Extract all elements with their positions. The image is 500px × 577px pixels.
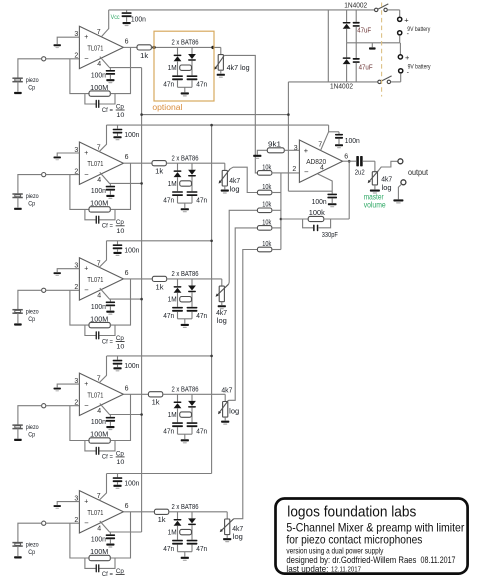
svg-text:logos foundation labs: logos foundation labs (287, 503, 416, 520)
resistor R3b 1M (180, 297, 192, 302)
capacitor 100n (Vcc decoupling, channel 4) (117, 356, 119, 360)
op-amp U6 AD820 (299, 140, 342, 182)
svg-text:Cp: Cp (116, 450, 124, 457)
svg-text:100n: 100n (91, 72, 106, 79)
ground (master pot) (370, 190, 380, 192)
svg-text:100M: 100M (90, 201, 108, 208)
capacitor C7 47uF (355, 43, 357, 58)
wire (pot to ground) (226, 535, 228, 538)
ground (pin 4 cap) (106, 544, 114, 546)
capacitor C1a 47n (172, 75, 183, 77)
ground (piezo) (14, 208, 22, 210)
wiper (219, 169, 230, 183)
wire (Vcc rows ch3-ch5) (107, 240, 212, 242)
wire (pin 3 to ground) (57, 37, 79, 44)
svg-text:Cf =: Cf = (102, 223, 113, 230)
wire (17, 429, 19, 439)
ground (limiter) (181, 557, 189, 559)
ground (limiter) (181, 92, 189, 94)
switch SW1 (+9V) (375, 8, 378, 11)
wire (limiter bottom) (177, 80, 179, 87)
wire (to limiter) (166, 162, 224, 164)
capacitor C3b 47n (187, 307, 198, 309)
svg-text:10k: 10k (262, 202, 271, 209)
wiper (216, 284, 228, 296)
wiper (215, 55, 224, 68)
battery B1 +9V terminal (399, 10, 401, 17)
capacitor 100n (pin 4 decoupling, channel 4) (109, 415, 111, 417)
wire (46, 289, 80, 291)
capacitor 100n (pin 4 decoupling, channel 5) (109, 532, 111, 534)
svg-text:piezo: piezo (26, 193, 39, 200)
svg-text:log: log (233, 534, 243, 541)
svg-text:Cp: Cp (116, 103, 124, 110)
wire (Vcc bus vertical) (211, 125, 213, 473)
svg-text:4: 4 (97, 177, 101, 184)
feedback resistor 100M (channel 5) (70, 523, 89, 558)
capacitor C2b 47n (187, 191, 198, 193)
potentiometer P2 4k7 log (224, 163, 226, 170)
ground (pin 4 cap) (106, 79, 114, 81)
svg-text:10k: 10k (262, 241, 271, 248)
wire (to pin 2) (281, 172, 300, 174)
ground (piezo) (14, 92, 22, 94)
wire (pot to ground) (221, 302, 223, 305)
feedback resistor 100M (channel 2) (70, 175, 89, 210)
svg-text:1M: 1M (168, 181, 177, 188)
svg-text:100n: 100n (312, 199, 327, 206)
svg-text:100n: 100n (91, 304, 106, 311)
resistor R4a 1k (123, 393, 148, 395)
capacitor C3a 47n (172, 307, 183, 309)
capacitor C2a 47n (172, 191, 183, 193)
resistor R2b 1M (180, 181, 192, 186)
svg-text:6: 6 (125, 385, 129, 392)
svg-text:output: output (408, 168, 429, 177)
wire (pin 4) (100, 172, 142, 183)
svg-text:47n: 47n (196, 429, 207, 436)
svg-text:2: 2 (74, 400, 78, 407)
diode D2a BAT86 (177, 163, 179, 170)
ground (pin 4 cap) (106, 311, 114, 313)
svg-text:12.11.2017: 12.11.2017 (331, 565, 361, 574)
svg-text:10: 10 (116, 112, 124, 119)
wire (limiter bottom) (177, 427, 179, 434)
wire (272, 249, 281, 251)
wire (to limiter) (169, 511, 227, 513)
svg-text:4k7 log: 4k7 log (227, 65, 250, 72)
ground (output jack) (393, 199, 403, 201)
wire (46, 405, 80, 407)
piezo element Cp (channel 2) (12, 193, 22, 195)
svg-text:1k: 1k (158, 517, 167, 524)
wire (-9V bottom rail) (288, 81, 378, 83)
wire (18, 59, 42, 78)
resistor R2a 1k (123, 162, 152, 164)
svg-text:9V battery: 9V battery (407, 26, 431, 33)
svg-text:4: 4 (320, 165, 324, 172)
svg-text:2u2: 2u2 (355, 170, 365, 177)
capacitor 100n (pin 4 decoupling, channel 3) (109, 299, 111, 301)
svg-text:7: 7 (97, 29, 101, 36)
svg-text:2 x BAT86: 2 x BAT86 (172, 271, 199, 278)
svg-text:47n: 47n (196, 82, 207, 89)
diode D2b BAT86 (191, 163, 193, 170)
op-amp U4 TL071 (79, 373, 123, 415)
svg-text:1M: 1M (168, 297, 177, 304)
ground (pot P4) (221, 421, 229, 423)
ground (9k1) (253, 155, 261, 157)
svg-text:6: 6 (344, 153, 348, 160)
wire (17, 546, 19, 556)
capacitor 100n (AD820 V+) (338, 132, 340, 134)
svg-text:Cp: Cp (28, 85, 35, 92)
resistor R11 9k1 (257, 150, 267, 154)
ground (pot P5) (223, 538, 231, 540)
capacitor 100n (Vcc decoupling, channel 2) (117, 125, 119, 129)
capacitor 100n (pin 4 decoupling, channel 2) (109, 183, 111, 185)
diode D4b BAT86 (191, 394, 193, 401)
svg-text:TL071: TL071 (87, 508, 103, 517)
svg-text:Cp: Cp (28, 432, 35, 439)
svg-text:volume: volume (364, 201, 386, 210)
ground (pot P3) (218, 305, 226, 307)
optional box (channel 1 limiter) (154, 31, 214, 101)
svg-text:4k7: 4k7 (381, 176, 392, 183)
switch SW2 (-9V) (378, 80, 381, 83)
feedback resistor 100M (channel 3) (70, 290, 89, 325)
svg-text:10: 10 (116, 228, 124, 235)
node (limiter in) (152, 46, 155, 49)
svg-text:Cp: Cp (116, 568, 124, 575)
svg-text:+: + (84, 150, 88, 157)
svg-text:piezo: piezo (26, 424, 39, 431)
feedback resistor 100M (channel 4) (70, 406, 89, 441)
svg-text:10k: 10k (262, 184, 271, 191)
svg-text:1N4002: 1N4002 (330, 83, 353, 90)
svg-text:TL071: TL071 (87, 390, 103, 399)
wire (limiter bottom) (177, 545, 179, 552)
resistor R1a 1k (123, 46, 137, 48)
svg-text:2: 2 (74, 517, 78, 524)
wire (pin 3 to ground) (57, 502, 79, 505)
battery B1 - terminal (398, 31, 402, 35)
output jack tip (398, 159, 403, 164)
ground (piezo) (14, 439, 22, 441)
wire (18, 406, 42, 425)
ground (piezo) (14, 556, 22, 558)
capacitor 100n (Vcc decoupling, channel 3) (117, 241, 119, 245)
wire (pin 7) (102, 10, 109, 37)
ground (pot P2) (221, 190, 229, 192)
svg-text:2 x BAT86: 2 x BAT86 (172, 386, 199, 393)
svg-text:1M: 1M (168, 529, 177, 536)
wire (pin 4) (100, 288, 142, 299)
piezo input connector J1 (42, 57, 46, 61)
wire (Vee bus horizontal) (142, 114, 289, 116)
wire (Vee feed) (288, 190, 332, 192)
wire (limiter bottom) (177, 312, 179, 319)
wire (272, 192, 281, 194)
svg-text:Cf =: Cf = (102, 107, 113, 114)
svg-text:47n: 47n (196, 197, 207, 204)
wire (to limiter) (151, 46, 220, 48)
svg-text:+: + (84, 266, 88, 273)
capacitor C1b 47n (187, 75, 198, 77)
capacitor C8 330pF (303, 219, 313, 228)
svg-text:9V battery: 9V battery (408, 63, 432, 70)
capacitor 100n (pin 4 decoupling, channel 1) (109, 68, 111, 70)
svg-text:version using a dual power sup: version using a dual power supply (286, 545, 384, 555)
wire (pin 7) (99, 241, 107, 268)
feedback capacitor Cf (channel 4) (85, 441, 96, 451)
svg-text:+: + (404, 15, 409, 24)
svg-text:TL071: TL071 (87, 159, 103, 168)
capacitor 100n (AD820 V-) (327, 194, 337, 196)
wire (pin 4) (100, 57, 142, 68)
wire (to limiter) (163, 393, 225, 395)
svg-text:100n: 100n (345, 138, 360, 145)
svg-text:log: log (229, 409, 239, 416)
svg-text:−: − (84, 54, 89, 63)
svg-text:47n: 47n (163, 546, 174, 553)
diode D1a BAT86 (177, 47, 179, 54)
svg-text:47n: 47n (163, 82, 174, 89)
svg-text:47uF: 47uF (359, 64, 373, 71)
svg-text:10k: 10k (262, 219, 271, 226)
svg-text:for piezo contact microphones: for piezo contact microphones (286, 532, 422, 546)
svg-text:9k1: 9k1 (268, 141, 281, 148)
wire (pin 4) (100, 521, 142, 532)
svg-text:−: − (84, 286, 89, 295)
feedback capacitor Cf (channel 3) (85, 325, 96, 335)
svg-text:log: log (217, 318, 227, 325)
svg-text:10: 10 (116, 344, 124, 351)
svg-text:2 x BAT86: 2 x BAT86 (172, 40, 199, 47)
svg-text:Vcc: Vcc (111, 14, 120, 21)
wire (Vee bus vertical left) (141, 68, 143, 532)
feedback capacitor Cf (channel 2) (85, 209, 96, 219)
svg-text:Cp: Cp (28, 200, 35, 207)
resistor R17 100k (feedback) (281, 218, 308, 220)
wire (pot to ground) (374, 185, 376, 189)
wire (46, 58, 80, 60)
ground (piezo) (14, 323, 22, 325)
wire (output) (343, 160, 356, 162)
wire (feedback to output) (348, 161, 350, 219)
svg-text:47n: 47n (196, 546, 207, 553)
wire (summing bus) (280, 173, 282, 250)
wire (18, 175, 42, 194)
svg-text:100M: 100M (90, 432, 108, 439)
svg-text:100M: 100M (90, 316, 108, 323)
svg-text:log: log (230, 186, 240, 193)
wire (pin 3 to ground) (57, 384, 79, 387)
svg-text:100n: 100n (91, 537, 106, 544)
piezo input connector J2 (42, 173, 46, 177)
resistor R14 10k (257, 208, 272, 213)
node (feedback tap) (348, 160, 351, 163)
wire (18, 523, 42, 542)
svg-text:Cp: Cp (28, 549, 35, 556)
svg-text:piezo: piezo (26, 309, 39, 316)
wire (pin 7) (99, 474, 107, 501)
svg-text:Cf =: Cf = (102, 571, 113, 577)
svg-text:100M: 100M (90, 85, 108, 92)
wire (272, 227, 281, 229)
ground (limiter) (181, 324, 189, 326)
svg-text:4: 4 (97, 293, 101, 300)
wire (272, 172, 281, 174)
wiper (219, 400, 229, 413)
svg-text:100n: 100n (124, 132, 139, 139)
svg-text:08.11.2017: 08.11.2017 (421, 555, 456, 565)
svg-text:log: log (382, 185, 392, 192)
svg-text:330pF: 330pF (322, 232, 338, 239)
svg-text:Cp: Cp (28, 316, 35, 323)
svg-text:47uF: 47uF (357, 27, 371, 34)
svg-text:1k: 1k (155, 169, 164, 176)
ground (pin 3) (54, 44, 61, 46)
wire (17, 82, 19, 92)
svg-text:2 x BAT86: 2 x BAT86 (172, 504, 199, 511)
svg-text:Cp: Cp (116, 335, 124, 342)
svg-text:47n: 47n (163, 197, 174, 204)
ground (V+ cap) (335, 144, 343, 146)
piezo element Cp (channel 4) (12, 424, 22, 426)
node (100k tap) (280, 218, 283, 221)
svg-text:1M: 1M (168, 412, 177, 419)
wiper (221, 519, 234, 532)
svg-text:6: 6 (125, 38, 129, 45)
capacitor C4b 47n (187, 422, 198, 424)
potentiometer P6 4k7 log (master volume) (374, 161, 376, 172)
diode D5b BAT86 (191, 512, 193, 519)
svg-text:+: + (405, 53, 410, 62)
piezo input connector J3 (42, 288, 46, 292)
svg-text:−: − (304, 168, 309, 177)
ground (centre tap) (371, 43, 373, 47)
svg-text:1M: 1M (168, 65, 177, 72)
svg-text:6: 6 (125, 503, 129, 510)
ground (pin 4 cap) (106, 426, 114, 428)
piezo element Cp (channel 3) (12, 309, 22, 311)
node (Vcc bus taps) (210, 124, 213, 127)
svg-text:optional: optional (152, 103, 182, 112)
capacitor C4a 47n (172, 422, 183, 424)
wire (pin 7 supply) (321, 125, 329, 150)
resistor R15 10k (257, 226, 272, 231)
diode D3b BAT86 (191, 279, 193, 286)
wire (18, 290, 42, 309)
op-amp U3 TL071 (79, 258, 123, 300)
svg-text:2: 2 (74, 53, 78, 60)
dashed panel divider (381, 3, 383, 97)
ground (pin 3) (54, 272, 61, 274)
ground (pin 3) (54, 157, 61, 159)
battery B2 + terminal (399, 43, 401, 55)
piezo input connector J5 (42, 521, 46, 525)
capacitor C5a 47n (172, 540, 183, 542)
wire (272, 209, 281, 211)
svg-text:piezo: piezo (26, 542, 39, 549)
wire (Vcc distribution line) (107, 124, 329, 126)
feedback capacitor Cf (channel 1) (85, 94, 96, 104)
battery B2 - terminal (399, 69, 403, 73)
capacitor 100n (Vcc decoupling, channel 1) (126, 10, 128, 12)
resistor R16 10k (257, 247, 272, 252)
ground (limiter) (181, 439, 189, 441)
wire (pot to ground) (220, 70, 222, 73)
piezo input connector J4 (42, 404, 46, 408)
wiper (master) (369, 171, 379, 183)
wire (pot to ground) (224, 186, 226, 189)
svg-text:100M: 100M (90, 549, 108, 556)
resistor R5a 1k (123, 511, 154, 513)
svg-text:4k7: 4k7 (229, 178, 240, 185)
ground (V- cap) (328, 203, 337, 205)
op-amp U1 TL071 (79, 26, 123, 68)
ground (pin 3) (54, 505, 61, 507)
wire (pin 4 supply) (318, 174, 333, 194)
feedback capacitor Cf (channel 5) (85, 558, 96, 568)
diode D4a BAT86 (177, 394, 179, 401)
svg-text:4: 4 (97, 408, 101, 415)
svg-text:2 x BAT86: 2 x BAT86 (172, 155, 199, 162)
wire (363, 160, 375, 162)
svg-text:4k7: 4k7 (232, 526, 243, 533)
resistor R5b 1M (180, 529, 192, 534)
svg-text:10: 10 (116, 459, 124, 466)
svg-text:3: 3 (294, 145, 298, 152)
capacitor C9 2u2 (356, 156, 359, 166)
svg-text:last update:: last update: (286, 564, 328, 574)
svg-text:100n: 100n (124, 481, 139, 488)
node (Vee bus taps) (140, 113, 143, 116)
potentiometer P4 4k7 log (224, 394, 226, 401)
svg-text:47n: 47n (196, 313, 207, 320)
wire (pot to ground) (224, 417, 226, 420)
svg-text:10k: 10k (262, 164, 271, 171)
wire (limiter bottom) (177, 196, 179, 203)
svg-text:piezo: piezo (26, 77, 39, 84)
svg-text:−: − (84, 170, 89, 179)
ground (pot P1) (217, 74, 225, 76)
svg-text:1k: 1k (152, 400, 161, 407)
wire (to limiter) (167, 278, 222, 280)
svg-text:TL071: TL071 (87, 43, 103, 52)
wire (pin 3 to ground) (57, 269, 79, 272)
node (Vee to AD820) (287, 113, 290, 116)
potentiometer P1 4k7 log (220, 47, 222, 54)
capacitor C5b 47n (187, 540, 198, 542)
svg-text:100n: 100n (91, 419, 106, 426)
svg-text:4k7: 4k7 (216, 310, 227, 317)
svg-text:4: 4 (97, 525, 101, 532)
svg-text:47n: 47n (163, 313, 174, 320)
svg-text:2: 2 (74, 284, 78, 291)
svg-text:Cf =: Cf = (102, 338, 113, 345)
capacitor 100n (Vcc decoupling, channel 5) (117, 474, 119, 478)
svg-text:1k: 1k (140, 53, 149, 60)
svg-text:100k: 100k (309, 210, 326, 217)
svg-text:1k: 1k (156, 284, 165, 291)
wire (pin 7) (99, 356, 107, 383)
svg-text:Cp: Cp (116, 219, 124, 226)
piezo element Cp (channel 1) (12, 77, 22, 79)
svg-text:6: 6 (125, 154, 129, 161)
resistor R3a 1k (123, 278, 152, 280)
